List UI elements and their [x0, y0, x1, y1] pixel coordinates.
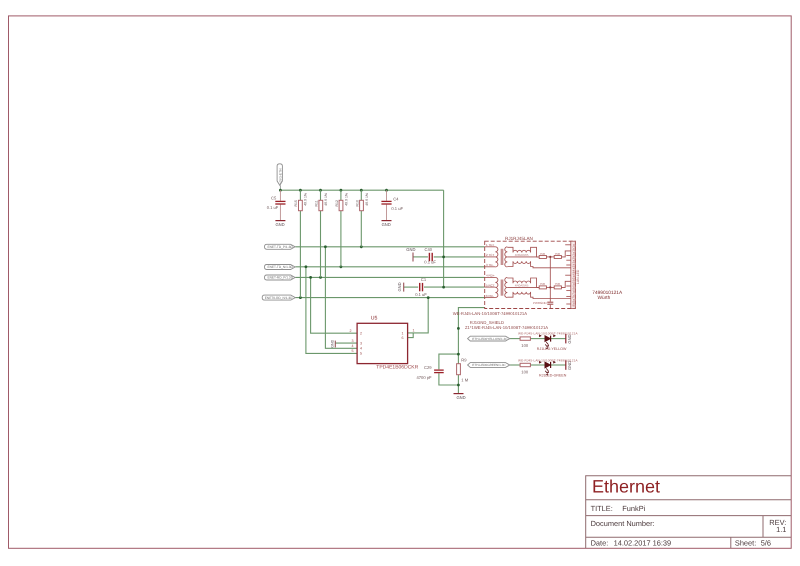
svg-text:GND: GND	[397, 282, 402, 291]
svg-text:ENET-RD_P/1.3D: ENET-RD_P/1.3D	[268, 276, 294, 280]
svg-text:ENET0-RD_N/1.3D: ENET0-RD_N/1.3D	[265, 296, 293, 300]
svg-text:5: 5	[360, 352, 362, 356]
svg-text:GND: GND	[567, 334, 572, 343]
svg-text:GND: GND	[457, 395, 466, 400]
svg-text:Sheet:: Sheet:	[735, 539, 756, 548]
svg-text:75R: 75R	[540, 282, 546, 286]
svg-text:4: 4	[352, 344, 354, 348]
svg-text:GND: GND	[276, 222, 285, 227]
svg-text:GND: GND	[330, 339, 334, 347]
svg-text:GND: GND	[382, 222, 391, 227]
svg-text:R11: R11	[315, 200, 319, 206]
svg-text:PWRGND: PWRGND	[533, 301, 547, 305]
svg-text:4R0A0W5: 4R0A0W5	[515, 283, 529, 287]
svg-text:C1: C1	[421, 277, 427, 282]
svg-text:4700 pF: 4700 pF	[417, 375, 433, 380]
svg-text:75R: 75R	[555, 282, 561, 286]
svg-text:4R0A0W5: 4R0A0W5	[515, 253, 529, 257]
svg-text:RJ1LED-GREEN: RJ1LED-GREEN	[539, 373, 567, 377]
svg-text:75R: 75R	[555, 252, 561, 256]
svg-text:0.1 uF: 0.1 uF	[267, 205, 279, 210]
svg-text:WE-RJ45-LAN-10/100BT-749901012: WE-RJ45-LAN-10/100BT-7499010121A	[453, 311, 527, 316]
svg-text:GND: GND	[406, 247, 415, 252]
svg-text:5: 5	[352, 349, 354, 353]
svg-text:0.1 uF: 0.1 uF	[391, 206, 403, 211]
svg-text:TITLE:: TITLE:	[591, 504, 613, 513]
svg-text:49.9 1%: 49.9 1%	[344, 193, 348, 206]
svg-text:49.9 1%: 49.9 1%	[324, 193, 328, 206]
svg-text:+3V3-ETH: +3V3-ETH	[278, 168, 282, 184]
svg-text:2: 2	[350, 329, 352, 333]
svg-text:C4: C4	[393, 196, 399, 201]
svg-text:Würth: Würth	[598, 295, 611, 301]
svg-text:Date:: Date:	[591, 539, 609, 548]
svg-text:4: 4	[360, 347, 362, 351]
svg-text:LAN-LED: LAN-LED	[576, 269, 580, 284]
svg-text:R15: R15	[294, 200, 298, 206]
svg-text:RJ1LED-YELLOW: RJ1LED-YELLOW	[537, 347, 567, 351]
svg-text:1: 1	[402, 331, 404, 335]
svg-text:WE-RJ45-LAN-10/100BT-749901012: WE-RJ45-LAN-10/100BT-7499010121A	[518, 331, 578, 335]
svg-text:1 M: 1 M	[461, 378, 468, 383]
svg-text:100: 100	[521, 369, 529, 374]
svg-text:ENET-TD_N/1.3D: ENET-TD_N/1.3D	[268, 265, 294, 269]
svg-text:R10: R10	[355, 200, 359, 206]
svg-text:100: 100	[521, 343, 529, 348]
svg-text:TPD4E1B06DCKR: TPD4E1B06DCKR	[376, 365, 418, 371]
svg-text:75R: 75R	[540, 252, 546, 256]
svg-text:C29: C29	[424, 365, 432, 370]
svg-text:49.9 1%: 49.9 1%	[304, 193, 308, 206]
svg-text:49.9 1%: 49.9 1%	[365, 193, 369, 206]
svg-text:6: 6	[402, 336, 404, 340]
svg-text:Document Number:: Document Number:	[591, 519, 655, 528]
svg-text:WE-RJ45-LAN-10/100BT-749901012: WE-RJ45-LAN-10/100BT-7499010121A	[518, 358, 578, 362]
svg-text:U5: U5	[371, 316, 378, 322]
svg-text:0.1 uF: 0.1 uF	[415, 292, 427, 297]
svg-text:3: 3	[360, 342, 362, 346]
svg-text:R12: R12	[335, 200, 339, 206]
svg-text:RJ1RJ45LAN: RJ1RJ45LAN	[505, 236, 533, 241]
svg-text:2: 2	[360, 331, 362, 335]
svg-text:1.1: 1.1	[776, 525, 786, 534]
svg-text:Z1*1WE-RJ45-LAN-10/100BT-74990: Z1*1WE-RJ45-LAN-10/100BT-7499010121A	[465, 325, 548, 330]
svg-text:5/6: 5/6	[761, 539, 771, 548]
svg-text:C40: C40	[425, 247, 433, 252]
svg-text:C5: C5	[271, 196, 277, 201]
svg-text:ENET-TD_P/1.3D: ENET-TD_P/1.3D	[268, 245, 294, 249]
svg-text:1: 1	[413, 329, 415, 333]
svg-text:FunkPi: FunkPi	[622, 504, 645, 513]
svg-text:Ethernet: Ethernet	[592, 476, 660, 496]
svg-text:0.1 uF: 0.1 uF	[424, 260, 436, 265]
svg-text:3: 3	[352, 339, 354, 343]
svg-text:14.02.2017 16:39: 14.02.2017 16:39	[614, 539, 672, 548]
svg-text:ETH-LED0GREEN/1.3C: ETH-LED0GREEN/1.3C	[472, 363, 506, 367]
svg-text:R9: R9	[461, 357, 467, 362]
svg-text:ETH-LED0YELLOW/1.3C: ETH-LED0YELLOW/1.3C	[472, 337, 508, 341]
